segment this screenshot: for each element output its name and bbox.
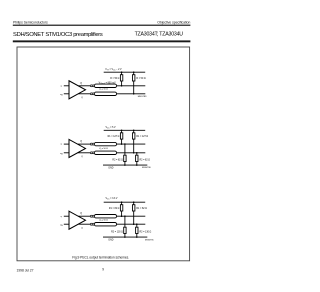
resistor R2 = 130 Ω at x=136.8 [136,224,138,227]
svg-text:Objective specification: Objective specification [157,20,190,24]
svg-text:GND: GND [108,240,113,242]
svg-text:MGS790: MGS790 [142,167,151,169]
wire input 1 [64,215,69,217]
op-amp buffer U2 [69,139,86,157]
supply rail circuit 3 [104,201,146,203]
resistor R1 = 82 Ω at x=121.6 [121,202,123,205]
svg-text:R2 = 82 Ω: R2 = 82 Ω [112,160,123,162]
svg-text:Q: Q [80,83,82,85]
coupling capacitor line 2 (circuit 3) [90,223,92,225]
wire output 1 [78,215,90,217]
junction dot on ground rail [124,236,126,238]
svg-text:Q: Q [80,141,82,143]
resistor R1 = 127 Ω at x=121.6 [121,130,123,133]
svg-text:GND: GND [108,168,113,170]
resistor R2 = 82 Ω at x=124.9 [124,144,126,155]
resistor R1 = 127 Ω at x=133.7 [133,130,135,133]
junction dot on line [133,152,135,154]
svg-text:Philips Semiconductors: Philips Semiconductors [13,20,48,24]
junction dot on line [133,223,135,225]
ground rail circuit 2 [103,164,147,166]
svg-text:TZA3034T; TZA3034U: TZA3034T; TZA3034U [135,32,184,38]
svg-text:R = 50 Ω: R = 50 Ω [110,78,119,80]
resistor R = 50 Ω at x=133.7 [133,72,135,75]
wire line 1 continuation [117,215,146,217]
transmission line Z0=50ohm (line 2) [94,223,116,226]
ground rail circuit 3 [103,236,147,238]
resistor R2 = 130 Ω at x=124.9 [124,216,126,227]
junction dot on line [136,152,138,154]
svg-text:R2 = 130 Ω: R2 = 130 Ω [111,232,123,234]
coupling capacitor line 1 (circuit 3) [90,215,92,217]
supply rail circuit 2 [104,129,146,131]
supply rail circuit 1 [104,71,146,73]
junction dot on line [133,93,135,95]
svg-text:R2 = 130 Ω: R2 = 130 Ω [140,232,152,234]
op-amp buffer U1 [69,81,86,99]
svg-text:MGS789: MGS789 [138,96,147,98]
resistor R1 = 82 Ω at x=133.7 [133,202,135,205]
coupling capacitor line 2 (circuit 2) [90,152,92,154]
junction dot on rail [121,201,123,203]
figure frame [17,47,190,261]
wire input 1 [64,85,69,87]
wire line 2 continuation [117,93,146,95]
transmission line Z0=50ohm (line 2) [94,151,116,154]
svg-text:R2 = 82 Ω: R2 = 82 Ω [140,160,151,162]
resistor R2 = 82 Ω at x=136.8 [136,153,138,155]
wire output 1 [78,143,91,145]
svg-text:R1 = 82 Ω: R1 = 82 Ω [109,208,120,210]
transmission line Z0=50ohm (line 2) [94,92,116,95]
svg-text:Q: Q [80,213,82,215]
junction dot on line [121,85,123,87]
junction dot on rail [133,201,135,203]
wire input 1 [64,143,69,145]
svg-text:SDH/SONET STM1/OC3 preamplifie: SDH/SONET STM1/OC3 preamplifiers [13,32,103,38]
junction dot on ground rail [124,164,126,166]
coupling capacitor line 1 (circuit 1) [90,85,92,87]
coupling capacitor line 2 (circuit 1) [90,93,92,95]
title thick rule [13,40,191,42]
wire input 2 [64,223,69,225]
junction dot on line [121,215,123,217]
wire input 2 [64,152,69,154]
wire line 2 continuation [117,223,146,225]
junction dot on rail [133,71,135,73]
resistor R = 50 Ω at x=121.6 [121,72,123,75]
junction dot on ground rail [136,164,138,166]
junction dot on rail [121,71,123,73]
transmission line Z0=50ohm (line 1) [94,142,116,145]
wire input 2 [64,93,69,95]
transmission line Z0=50ohm (line 1) [94,84,116,87]
svg-text:R1 = 127 Ω: R1 = 127 Ω [108,136,120,138]
junction dot on rail [121,130,123,132]
op-amp buffer U3 [69,211,86,229]
coupling capacitor line 1 (circuit 2) [90,143,92,145]
svg-text:R = 50 Ω: R = 50 Ω [136,78,145,80]
svg-text:1998 Jul 27: 1998 Jul 27 [17,268,34,272]
svg-text:R1 = 82 Ω: R1 = 82 Ω [136,208,147,210]
wire output 2 [78,152,91,154]
junction dot on rail [133,130,135,132]
wire line 1 continuation [117,85,146,87]
junction dot on ground rail [136,236,138,238]
junction dot on line [121,143,123,145]
junction dot on line [136,223,138,225]
wire line 2 continuation [117,152,146,154]
header hairline rule [13,25,191,26]
svg-text:R1 = 127 Ω: R1 = 127 Ω [136,136,148,138]
junction dot on line [124,143,126,145]
wire line 1 continuation [117,143,146,145]
wire output 2 [78,223,90,225]
svg-text:MGS791: MGS791 [145,240,154,242]
svg-text:9: 9 [102,268,104,272]
transmission line Z0=50ohm (line 1) [94,215,116,218]
wire output 2 [78,93,90,95]
wire output 1 [78,85,90,87]
junction dot on line [124,215,126,217]
svg-text:Fig.9 PECL output termination: Fig.9 PECL output termination schemes. [72,256,129,260]
